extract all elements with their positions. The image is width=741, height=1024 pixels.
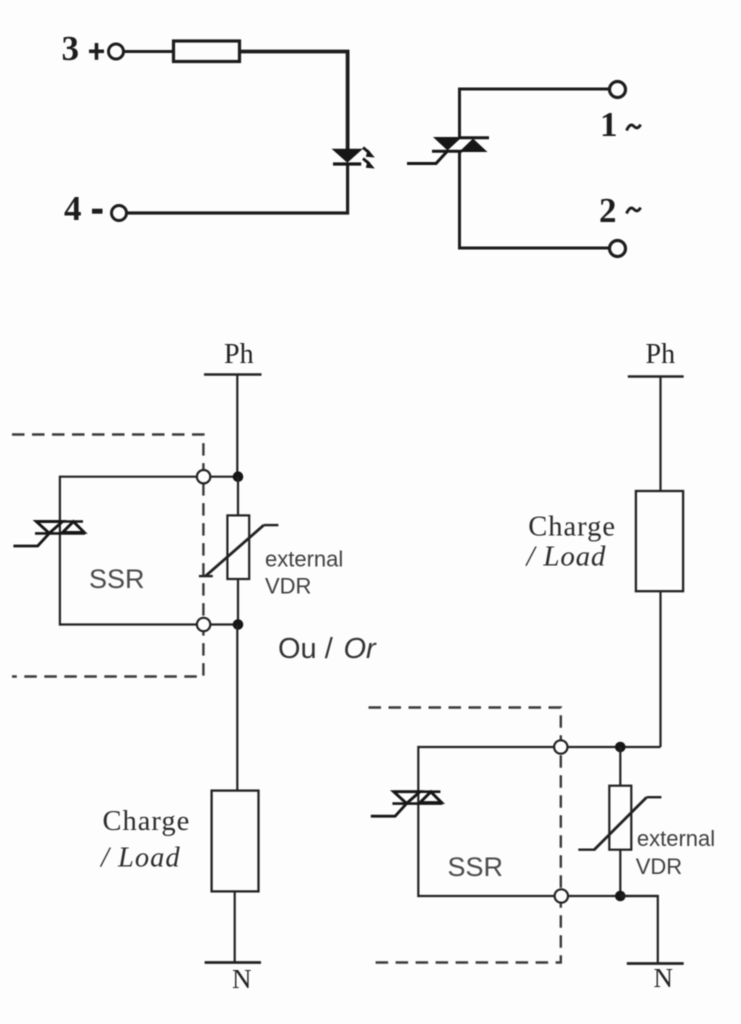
junction dot bottom left <box>233 619 244 630</box>
SSR dashed enclosure left <box>12 435 203 677</box>
SSR internal triac left <box>35 522 85 534</box>
load rectangle left <box>212 791 259 892</box>
label external VDR right <box>636 826 715 879</box>
wire node to neutral right <box>620 896 658 964</box>
svg-text:N: N <box>232 964 252 994</box>
wire SSR output top left <box>60 476 238 478</box>
wire Ph to load right <box>659 377 661 492</box>
SSR gate lead right <box>371 804 407 817</box>
terminal circle SSR top left <box>197 470 210 483</box>
wire triac MT2 to pin 1 <box>460 89 610 137</box>
junction dot top right <box>615 742 626 753</box>
wire node to load left <box>236 625 238 791</box>
terminal circle SSR bottom right <box>555 889 568 902</box>
svg-text:Or: Or <box>344 633 378 665</box>
wire resistor to LED anode <box>240 52 348 151</box>
svg-text:2: 2 <box>599 191 617 230</box>
wire node to VDR right <box>619 747 621 786</box>
svg-text:N: N <box>654 963 674 993</box>
junction dot top left <box>233 471 244 482</box>
SSR internal triac right <box>392 792 442 804</box>
triac gate lead top schematic <box>407 151 448 164</box>
varistor diagonal left <box>199 525 279 576</box>
load rectangle right <box>636 491 683 591</box>
svg-text:Charge: Charge <box>103 806 191 837</box>
wire SSR output bottom right <box>418 895 658 897</box>
svg-text:Ou /: Ou / <box>278 633 334 665</box>
svg-text:4: 4 <box>64 189 82 228</box>
wire pin3 to resistor <box>124 50 174 53</box>
svg-text:SSR: SSR <box>448 852 504 882</box>
svg-text:Ph: Ph <box>224 339 254 370</box>
svg-text:VDR: VDR <box>636 854 682 879</box>
wire SSR output bottom left <box>60 623 238 625</box>
terminal label 3 + <box>62 29 105 68</box>
wire VDR to node left <box>237 579 239 625</box>
svg-text:external: external <box>265 547 343 572</box>
svg-text:3: 3 <box>62 29 80 68</box>
terminal circle pin 4 <box>112 206 127 221</box>
wire load to neutral left <box>234 891 236 962</box>
svg-text:external: external <box>637 826 715 851</box>
svg-text:Charge: Charge <box>528 512 616 543</box>
wire VDR to node right <box>619 850 621 896</box>
terminal circle pin 3 <box>109 44 124 59</box>
wire load to node right <box>659 591 661 747</box>
SSR dashed enclosure right <box>369 708 561 963</box>
wire node to VDR left <box>237 477 239 516</box>
junction dot bottom right <box>615 891 626 902</box>
varistor VDR rect left <box>227 515 249 579</box>
svg-text:SSR: SSR <box>89 564 145 594</box>
wire SSR left leg left <box>59 476 61 626</box>
svg-text:/ Load: / Load <box>99 843 181 874</box>
wire SSR left leg right <box>417 746 419 897</box>
LED optocoupler emitter <box>333 150 361 165</box>
wire triac MT1 to pin 2 <box>460 152 610 248</box>
neutral bar N left <box>205 961 261 964</box>
Ph terminal bar right <box>628 375 684 378</box>
varistor VDR rect right <box>609 786 631 850</box>
neutral bar N right <box>627 962 684 965</box>
svg-text:Ph: Ph <box>646 339 676 370</box>
Ph terminal bar left <box>204 373 262 376</box>
resistor input series <box>174 41 240 62</box>
wire LED cathode to pin 4 <box>127 166 348 214</box>
terminal label 1 ~ <box>600 105 641 144</box>
triac output top schematic <box>432 137 489 152</box>
label external VDR left <box>265 547 343 599</box>
terminal circle pin 2 <box>610 241 626 257</box>
LED light emission arrows <box>363 148 375 169</box>
svg-text:/ Load: / Load <box>525 541 607 573</box>
label Charge / Load left <box>99 806 190 874</box>
terminal circle SSR bottom left <box>197 618 210 631</box>
varistor diagonal right <box>578 797 661 850</box>
wire SSR output top right <box>418 746 660 748</box>
terminal label 2 ~ <box>599 191 641 230</box>
terminal label 4 - <box>64 189 103 228</box>
svg-text:VDR: VDR <box>265 574 311 599</box>
SSR gate lead left <box>13 533 49 546</box>
terminal circle SSR top right <box>554 740 567 753</box>
label Charge / Load right <box>525 512 616 573</box>
label Ou / Or <box>278 633 377 665</box>
terminal circle pin 1 <box>610 82 626 98</box>
svg-text:1: 1 <box>600 105 618 144</box>
wire Ph to node left <box>236 375 238 478</box>
